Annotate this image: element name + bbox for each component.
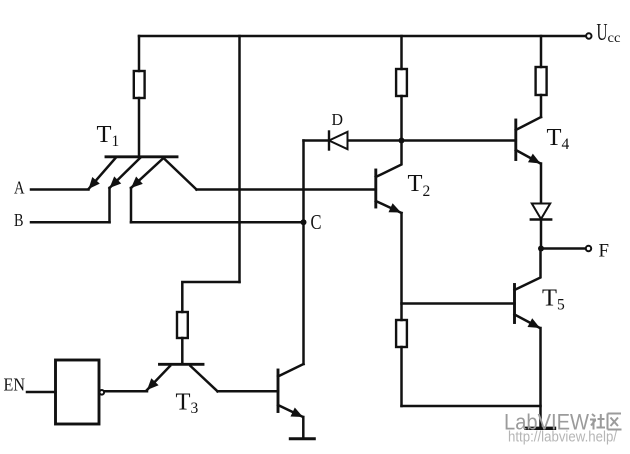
T2 emitter [376, 201, 402, 213]
transistor T2 base bar [374, 170, 377, 207]
T1 collector diagonal [164, 158, 197, 190]
wire V2 emitter down [302, 417, 305, 438]
wire T4 emitter to diode VD [540, 164, 543, 204]
wire emitter3 riser [130, 188, 133, 222]
node C dot [301, 219, 307, 225]
svg-text:D: D [332, 110, 344, 129]
svg-text:U: U [597, 19, 608, 46]
resistor R4 [536, 67, 547, 95]
wire T2 emitter down [400, 213, 403, 320]
T2 collector [376, 141, 402, 178]
svg-text:4: 4 [562, 136, 570, 153]
svg-text:1: 1 [112, 133, 120, 150]
wire R5 to bottom rail [400, 347, 403, 406]
diode D wire [304, 139, 402, 142]
T1 emitter 1 [89, 158, 116, 189]
wire node F to terminal [541, 247, 586, 250]
wire T5 base [402, 302, 515, 305]
node junction dot R2/D/T2/T4 [399, 138, 405, 144]
resistor R2 [396, 69, 407, 96]
wire rail drop to R2 [400, 36, 403, 69]
svg-text:T: T [542, 285, 557, 312]
wire input A [31, 188, 89, 191]
ground under V2 [290, 437, 314, 440]
svg-text:T: T [97, 121, 112, 148]
transistor V2 base bar [277, 370, 280, 412]
T3 emitter [147, 366, 170, 390]
wire rail drop to R1 [138, 36, 141, 71]
T5 collector [515, 251, 541, 290]
transistor T1 base bar [106, 155, 177, 158]
svg-text:B: B [14, 210, 24, 230]
T1 emitter 2 [110, 158, 141, 188]
transistor T5 base bar [513, 285, 516, 323]
T1 emitter 3 [131, 158, 164, 188]
wire R4 to T4 collector [540, 95, 543, 117]
EN gate output bubble [100, 390, 105, 395]
Ucc terminal [586, 33, 591, 38]
wire VD to node F [540, 220, 543, 249]
wire bottom rail [402, 405, 541, 408]
T4 collector [516, 117, 541, 130]
wire T5 emitter down to ground [539, 328, 542, 427]
wire input B [31, 221, 110, 224]
wire R2 to node [400, 96, 403, 141]
F terminal [586, 246, 591, 251]
watermark CJK glyphs [590, 414, 622, 430]
V2 collector [278, 364, 304, 377]
wire jog to R3 [182, 282, 239, 312]
wire R3 to T3 base [181, 338, 184, 363]
diode D symbol [329, 132, 348, 149]
T4 emitter [516, 150, 541, 164]
svg-text:T: T [547, 124, 562, 151]
resistor R1 [134, 71, 145, 98]
EN gate box [56, 360, 100, 424]
wire input EN [27, 391, 56, 394]
diode VD symbol [532, 204, 550, 220]
svg-text:F: F [599, 241, 610, 262]
wire T3 emitter to gate output [105, 390, 148, 393]
wire emitter3 to node C [131, 221, 304, 224]
wire node to T4 base [402, 139, 516, 142]
resistor R5 [396, 320, 407, 347]
wire top Ucc rail [139, 35, 586, 38]
svg-text:C: C [311, 210, 322, 234]
transistor T4 base bar [514, 120, 517, 160]
V2 emitter [278, 405, 303, 417]
wire V2 base [218, 390, 279, 393]
wire node C vertical [302, 141, 305, 365]
svg-text:3: 3 [191, 400, 199, 417]
svg-text:A: A [14, 178, 25, 198]
resistor R3 [177, 312, 188, 338]
wire R1 to T1 base [138, 98, 141, 156]
node F dot [538, 246, 544, 252]
wire rail drop to R4 [540, 36, 543, 67]
svg-text:T: T [176, 389, 191, 416]
svg-text:cc: cc [608, 30, 621, 45]
wire emitter2 riser [108, 188, 111, 222]
ground under T5 [526, 427, 555, 430]
svg-text:2: 2 [423, 183, 431, 200]
svg-text:5: 5 [557, 297, 565, 314]
wire T1 collector to T2 base [197, 188, 376, 191]
T5 emitter [515, 315, 541, 329]
diode D cathode bar [328, 132, 330, 150]
transistor T3 base bar [160, 363, 204, 366]
diode VD cathode bar [531, 218, 551, 220]
svg-text:http://labview.help/: http://labview.help/ [508, 430, 618, 446]
svg-text:T: T [408, 170, 423, 197]
svg-text:EN: EN [4, 375, 26, 395]
T3 collector [191, 366, 218, 391]
wire rail drop x240 [238, 36, 241, 282]
